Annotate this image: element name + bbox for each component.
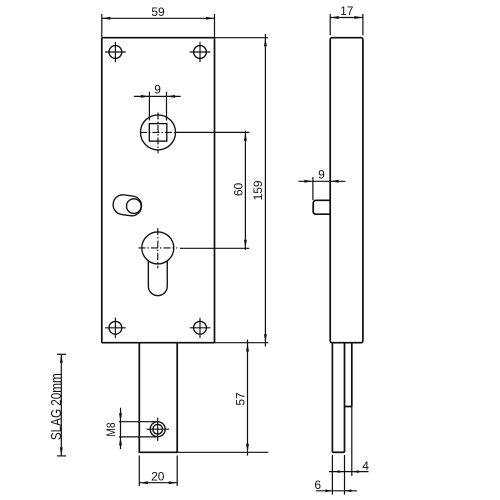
screw hole top-left	[105, 42, 126, 62]
connector line cylinder center	[180, 247, 249, 249]
svg-text:6: 6	[314, 478, 321, 492]
dimension 57	[177, 340, 268, 456]
dimension 4	[329, 407, 369, 495]
screw hole bottom-left	[105, 318, 126, 338]
side view latch protrusion	[313, 200, 330, 214]
dimension SLAG 20mm	[48, 354, 66, 456]
svg-text:57: 57	[233, 392, 247, 406]
bolt front view	[139, 343, 177, 452]
svg-text:17: 17	[340, 4, 354, 18]
connector line spindle center	[176, 131, 249, 133]
svg-text:60: 60	[232, 183, 246, 197]
M8 threaded hole	[147, 418, 169, 441]
screw hole top-right	[190, 42, 211, 62]
side view body	[330, 38, 363, 343]
dimension 20	[139, 456, 177, 487]
svg-text:20: 20	[151, 469, 165, 483]
spindle centerlines	[140, 113, 179, 154]
dimension 9 side	[298, 168, 345, 200]
euro cylinder hole	[142, 232, 174, 296]
dimension 6	[314, 455, 357, 495]
dimension 9 front	[134, 83, 181, 121]
spindle hole circle	[141, 115, 176, 150]
svg-text:9: 9	[318, 168, 325, 182]
dimension M8	[105, 408, 158, 449]
dimension 159	[215, 34, 269, 347]
svg-text:M8: M8	[105, 422, 118, 436]
euro cylinder centerlines	[139, 228, 178, 268]
svg-text:SLAG 20mm: SLAG 20mm	[48, 373, 65, 440]
follower oval slot	[112, 194, 143, 218]
dimension 17	[330, 4, 363, 35]
bolt side view	[332, 343, 351, 453]
svg-text:59: 59	[151, 5, 165, 19]
screw hole bottom-right	[190, 318, 211, 338]
svg-text:9: 9	[154, 83, 161, 97]
spindle square 9mm	[149, 124, 167, 142]
dimension 59	[102, 5, 215, 37]
svg-text:159: 159	[251, 180, 265, 200]
svg-text:4: 4	[362, 459, 369, 473]
dimension 60	[232, 131, 247, 251]
front plate outline	[102, 38, 215, 343]
